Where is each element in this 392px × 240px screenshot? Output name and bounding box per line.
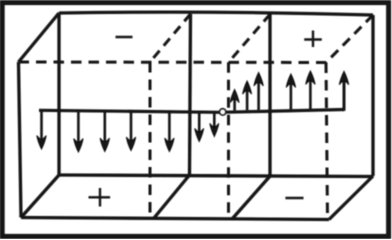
domain wall A top edge (hidden) <box>150 14 191 62</box>
plus sign bottom-left domain <box>89 188 111 207</box>
box front face top edge <box>59 12 373 15</box>
box front face left edge <box>57 13 60 175</box>
box depth edge top-left <box>19 13 60 62</box>
domain wall A bottom edge <box>154 175 190 218</box>
box front face right edge <box>371 15 374 176</box>
junction circle <box>220 109 226 115</box>
domain wall B bottom edge <box>233 175 272 219</box>
minus sign top-left domain <box>116 36 133 38</box>
polarization baseline right segment <box>226 110 344 113</box>
up arrow 3 <box>254 73 263 111</box>
up arrow 4 <box>286 74 295 110</box>
box back face left edge <box>19 62 22 218</box>
box depth edge bottom-left <box>21 175 59 218</box>
down arrow 7 (shortest, at wall) <box>210 112 219 137</box>
polarization baseline left segment <box>39 110 219 112</box>
down arrow 1 <box>37 111 46 150</box>
domain wall B front edge <box>268 14 271 176</box>
box back face bottom edge <box>21 218 329 220</box>
box back face right edge (hidden) <box>326 63 328 219</box>
up arrow 6 (bent end of baseline) <box>339 71 348 111</box>
down arrow 5 <box>165 112 174 152</box>
box front face bottom edge <box>59 175 373 177</box>
down arrow 2 <box>74 111 83 152</box>
up arrow 2 (shorter, near wall) <box>243 81 252 111</box>
box depth edge top-right (hidden) <box>326 15 373 63</box>
domain wall A back edge (hidden) <box>149 62 152 218</box>
domain wall A front edge <box>190 14 191 175</box>
down arrow 3 <box>100 111 109 152</box>
plus sign top-right domain <box>304 31 322 48</box>
down arrow 6 (shorter, near wall) <box>195 112 204 142</box>
up arrow 5 <box>306 71 315 110</box>
box depth edge bottom-right <box>329 176 373 220</box>
domain wall B back edge (hidden) <box>227 62 230 218</box>
domain wall B top edge (hidden) <box>229 14 271 62</box>
box back face top edge (hidden) <box>19 61 327 65</box>
down arrow 4 <box>126 111 135 150</box>
up arrow 1 (shortest, at wall) <box>230 90 239 112</box>
minus sign bottom-right domain <box>285 197 303 199</box>
